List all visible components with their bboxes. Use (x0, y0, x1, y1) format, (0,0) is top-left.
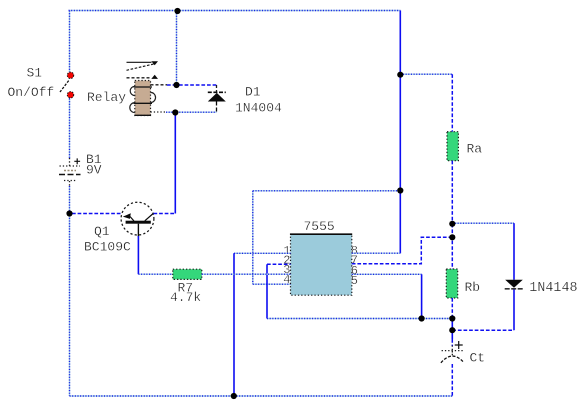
diode D2 1N4148 (505, 223, 524, 330)
wire pin8 stub (352, 252, 401, 254)
IC U1 7555 body (290, 234, 352, 295)
junction: bottom rail / pin1 ground drop (231, 393, 237, 399)
wire main V+ riser (solid, x=400) (399, 11, 401, 254)
wire pin4 stub (253, 283, 291, 285)
relay contact symbol (127, 61, 159, 79)
svg-text:Ra: Ra (467, 142, 483, 157)
junction: V+ riser / reset rail (397, 187, 403, 193)
wire left rail upper (top rail to S1) (69, 11, 71, 73)
wire Rb top lead (451, 224, 453, 269)
wire pin4 drop (252, 191, 254, 284)
junction: pin7 node (449, 234, 455, 240)
wire Ct top lead (451, 319, 453, 340)
wire left rail middle (S1 to B1) (69, 99, 71, 159)
wire pin6 stub (352, 273, 422, 275)
transistor Q1 (121, 202, 154, 236)
resistor Ra (447, 132, 458, 161)
wire pin1 ground drop (233, 253, 235, 396)
svg-text:Ct: Ct (470, 351, 486, 366)
switch S1 (60, 72, 74, 98)
svg-text:9V: 9V (86, 163, 102, 178)
battery B1 (59, 158, 81, 186)
wire pin7 stub and riser (352, 237, 453, 263)
wire bottom rail (ground net) (70, 395, 453, 397)
wire collector riser (up to relay coil bottom node) (174, 113, 176, 214)
svg-text:Rb: Rb (465, 280, 481, 295)
svg-text:D1: D1 (245, 85, 261, 100)
wire pin2 drop (266, 264, 268, 318)
junction: top rail / relay feed (174, 8, 180, 14)
junction: Ct top / D2 return (449, 327, 455, 333)
junction: emitter node on left rail (66, 210, 72, 216)
junction: pin6 drop / threshold row (419, 315, 425, 321)
junction: V+ riser / Ra feed (397, 72, 403, 78)
svg-text:4.7k: 4.7k (170, 290, 201, 305)
wire pin3 row left (Q1 base to R7) (137, 236, 139, 274)
wire discharge node to D2 top (452, 222, 514, 224)
wire threshold row (pin2/pin6 tie) (267, 318, 452, 320)
svg-text:4: 4 (283, 273, 290, 287)
wire coil top node to D1 cathode (179, 84, 217, 86)
svg-text:1N4148: 1N4148 (529, 281, 577, 296)
resistor Rb (446, 269, 457, 298)
wire pin6 drop (421, 274, 423, 318)
junction: relay coil top node (173, 82, 179, 88)
wire top rail (V+ net) (69, 10, 401, 12)
svg-text:1N4004: 1N4004 (235, 101, 282, 116)
svg-text:5: 5 (351, 274, 358, 288)
wire collector horizontal (Q1 to riser) (154, 213, 176, 215)
wire D2 bottom return (452, 329, 514, 331)
wire relay coil top lead (151, 84, 168, 86)
svg-text:Q1: Q1 (94, 224, 110, 239)
svg-text:7555: 7555 (304, 219, 335, 234)
junction: relay coil bottom node (172, 109, 178, 115)
wire Ra bottom lead (451, 161, 453, 224)
wire Rb bottom lead (451, 298, 453, 319)
svg-text:Relay: Relay (87, 90, 126, 105)
wire relay coil bottom lead (151, 111, 167, 113)
junction: Rb bottom / Ct top node (449, 315, 455, 321)
diode D1 (208, 92, 226, 112)
svg-text:BC109C: BC109C (84, 240, 131, 255)
wire left rail lower (B1 to bottom rail) (69, 186, 71, 396)
svg-text:On/Off: On/Off (8, 85, 55, 100)
wire Ct bottom lead (451, 364, 453, 396)
wire pin3 row right (R7 to pin3) (202, 273, 291, 275)
svg-text:S1: S1 (27, 66, 43, 81)
wire coil bottom node to D1 anode (166, 111, 217, 113)
relay coil (130, 81, 156, 116)
capacitor Ct (441, 341, 464, 363)
wire emitter (left rail to Q1) (72, 213, 121, 215)
junction: Ra bottom / discharge node (449, 221, 455, 227)
wire Ra feed horizontal (400, 73, 452, 75)
wire reset rail (pin4 tie to V+) (253, 190, 400, 192)
wire Ra top lead (451, 74, 453, 132)
wire pin2 stub (267, 263, 291, 265)
resistor R7 (173, 269, 202, 279)
wire relay feed riser (top rail down to coil top node) (176, 11, 178, 86)
wire pin1 stub (ground) (234, 252, 291, 254)
